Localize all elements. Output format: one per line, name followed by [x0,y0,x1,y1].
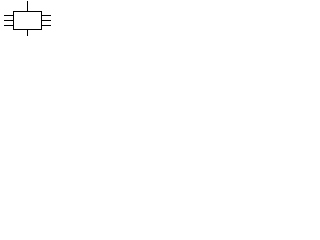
wire right pin 5 [42,20,52,22]
wire left pin 1 [4,15,14,17]
wire right pin 6 [42,25,52,27]
wire left pin 2 [4,20,14,22]
wire left pin 3 [4,25,14,27]
IC U1 body [14,12,42,30]
wire top pin [27,1,29,12]
wire right pin 4 [42,15,52,17]
wire bottom pin [27,30,29,37]
